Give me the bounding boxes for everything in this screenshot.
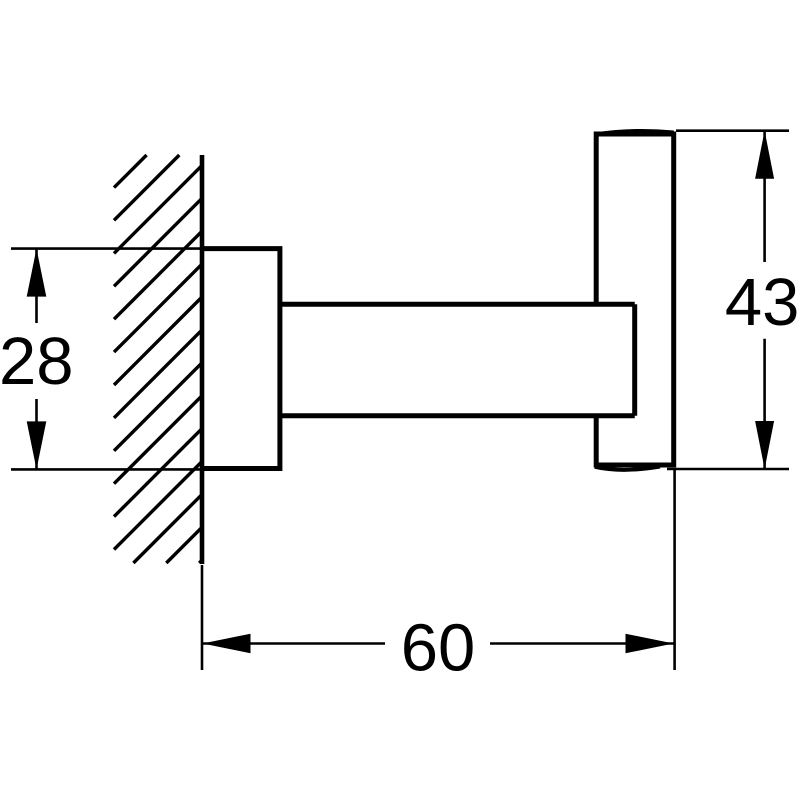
svg-text:28: 28 bbox=[0, 324, 74, 399]
svg-text:60: 60 bbox=[401, 610, 476, 685]
svg-text:43: 43 bbox=[725, 265, 800, 340]
